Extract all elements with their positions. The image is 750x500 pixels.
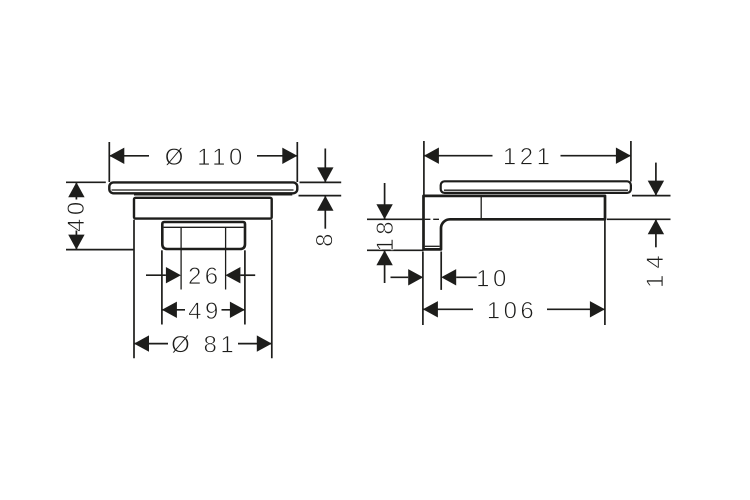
bracket inner edge line (480, 196, 482, 219)
arrow dia81 left (134, 335, 149, 351)
arrow 49 left (162, 302, 177, 318)
extension line 8 bottom (299, 195, 342, 197)
arrow 18 bottom (376, 250, 392, 265)
svg-text:8: 8 (311, 230, 338, 247)
extension line 121 left (423, 141, 425, 195)
arrow 10 left (408, 269, 423, 285)
extension line 18 bottom (367, 249, 423, 251)
arrow 8 bottom (317, 196, 333, 211)
dish plate inner line (112, 189, 294, 191)
svg-text:26: 26 (188, 263, 222, 290)
dimension dia110 line right (257, 155, 297, 157)
arrow 121 left (424, 148, 439, 164)
dimension 10 line left (391, 276, 409, 278)
svg-text:40: 40 (63, 198, 90, 232)
extension line dia81 right (271, 220, 273, 358)
dimension dia110 line left (109, 155, 149, 157)
arrow 26 left (166, 267, 181, 283)
svg-text:Ø 81: Ø 81 (171, 332, 237, 359)
dimension 40 line bottom (75, 231, 77, 250)
arrow dia110 right (282, 148, 297, 164)
extension line 121 right (630, 141, 632, 182)
arrow dia81 right (257, 335, 272, 351)
dimension 121 line left (424, 155, 493, 157)
dimension 14 line top (655, 163, 657, 196)
arrow 121 right (616, 148, 631, 164)
extension line 14 bottom (607, 218, 671, 220)
svg-text:49: 49 (188, 298, 222, 325)
arrow dia110 left (109, 148, 124, 164)
dimension 8 line top (324, 149, 326, 183)
svg-text:106: 106 (487, 297, 538, 324)
bracket foot inner line (425, 245, 440, 247)
svg-text:14: 14 (642, 249, 669, 288)
svg-text:121: 121 (503, 144, 554, 171)
dimension 49 line right (222, 309, 245, 311)
arrow 26 right (225, 267, 240, 283)
dimension 18 line top (384, 183, 386, 219)
arrow 40 bottom (68, 235, 84, 250)
arrow 18 top (376, 204, 392, 219)
drain box inner line (164, 226, 244, 228)
svg-text:Ø 110: Ø 110 (165, 144, 246, 171)
dimension 49 line left (162, 309, 185, 311)
dish plate lip line (134, 194, 292, 196)
arrow 14 bottom (648, 219, 664, 234)
dimension 40 line top (75, 182, 77, 199)
drain box (162, 222, 245, 249)
body flange (134, 198, 272, 219)
arrow 14 top (648, 181, 664, 196)
extension line 40 top (66, 181, 106, 183)
extension line 14 top (632, 195, 671, 197)
dimension dia81 line left (134, 343, 168, 345)
svg-text:18: 18 (372, 218, 399, 252)
extension line 49 right (244, 250, 246, 324)
svg-text:10: 10 (476, 265, 510, 292)
arrow 8 top (317, 167, 333, 182)
dish plate outline (109, 182, 297, 193)
extension line dia110 left (108, 142, 110, 182)
dimension 10 line right (456, 276, 477, 278)
hidden edge dashed line (425, 218, 441, 220)
extension line 18 top (367, 218, 423, 220)
arrow 106 right (590, 301, 605, 317)
dimension dia81 line right (238, 343, 272, 345)
drain hole edge left (180, 227, 182, 289)
dimension 14 line bottom (655, 219, 657, 247)
arrow 10 right (441, 269, 456, 285)
dimension 18 line bottom (384, 250, 386, 283)
wall bracket outline (424, 196, 606, 250)
arrow 49 right (230, 302, 245, 318)
extension line dia110 right (296, 142, 298, 182)
dimension 26 line right (240, 274, 255, 276)
arrow 106 left (423, 301, 438, 317)
extension line 40 bottom (66, 249, 134, 251)
extension line dia81 left (133, 220, 135, 358)
extension line 49 left (161, 250, 163, 324)
extension line 8 top (300, 181, 342, 183)
drain hole edge right (225, 227, 227, 289)
extension line 10 right (440, 252, 442, 290)
extension line 106 right (604, 221, 606, 326)
arrow 40 top (68, 182, 84, 197)
dimension 8 line bottom (324, 196, 326, 229)
dimension 26 line left (146, 274, 166, 276)
extension line 10-106 shared left (422, 252, 424, 326)
dimension 106 line right (547, 308, 605, 310)
side plate outline (441, 181, 631, 193)
dimension 121 line right (561, 155, 631, 157)
dimension 106 line left (423, 308, 473, 310)
side plate inner line (444, 189, 628, 191)
